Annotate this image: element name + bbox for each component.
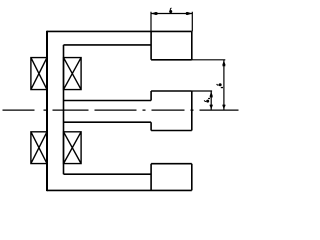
coil section box lower-left with X xyxy=(31,132,47,164)
label delta2 (rotated, at pole-face dimension) xyxy=(217,83,222,86)
yoke inner left vertical xyxy=(63,45,65,174)
lower pole block xyxy=(151,164,192,191)
yoke outer left vertical xyxy=(46,31,48,191)
arrowhead top-dim left xyxy=(151,12,156,15)
armature head right edge xyxy=(191,91,193,131)
arrowhead delta2 up xyxy=(222,60,225,65)
arrowhead delta1 down xyxy=(210,105,213,110)
top dimension line xyxy=(151,13,192,15)
upper pole block xyxy=(151,31,192,59)
label delta (top air-gap dimension) xyxy=(169,8,172,13)
label delta1 (rotated, at head-top dimension) xyxy=(204,100,209,103)
yoke outer bottom line xyxy=(47,189,192,191)
head top extension line (right) xyxy=(192,90,212,92)
yoke inner top line xyxy=(64,44,152,46)
yoke outer top line xyxy=(47,30,192,32)
armature head step (lower) xyxy=(151,122,192,130)
centerline (horizontal dash-dot axis) xyxy=(3,109,239,111)
pole face extension line (right) xyxy=(192,59,226,61)
arrowhead top-dim right xyxy=(187,12,192,15)
coil section box lower-right with X xyxy=(64,132,82,164)
dimension line delta2 (pole face to axis) xyxy=(223,60,225,110)
arrowhead delta1 up xyxy=(210,91,213,96)
arrowhead delta2 down xyxy=(222,105,225,110)
armature shaft top edge xyxy=(64,100,152,102)
top dimension extension lines xyxy=(151,12,192,32)
coil section box upper-right with X xyxy=(64,58,82,90)
armature shaft bottom edge xyxy=(64,121,152,123)
armature head step (upper) xyxy=(151,91,192,101)
yoke inner bottom line xyxy=(64,173,152,175)
dimension line delta1 (head top to axis) xyxy=(210,91,212,110)
coil section box upper-left with X xyxy=(31,58,47,90)
